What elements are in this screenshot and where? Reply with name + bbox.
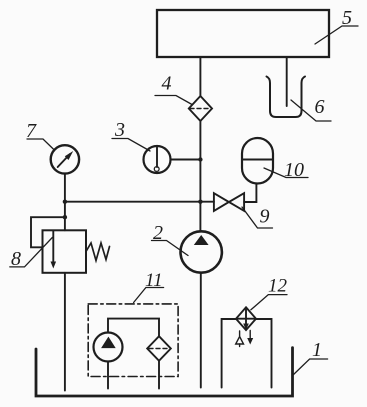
cylinder block 5 xyxy=(157,10,329,57)
relief valve 8 spring xyxy=(86,243,110,261)
filter 11b xyxy=(147,336,171,361)
svg-text:8: 8 xyxy=(11,248,21,270)
container 12 walls xyxy=(222,319,236,388)
horizontal rail wire xyxy=(65,201,214,203)
svg-text:2: 2 xyxy=(153,222,163,244)
svg-text:5: 5 xyxy=(342,7,352,29)
svg-text:11: 11 xyxy=(145,270,163,291)
pump 2 xyxy=(181,231,222,272)
pump 11a xyxy=(94,333,123,362)
label 1 leader xyxy=(293,359,328,376)
node rail/main xyxy=(198,200,202,204)
label 5 leader xyxy=(315,26,358,44)
vessel 6 xyxy=(267,77,306,118)
label 6 leader xyxy=(291,100,331,121)
label 9 leader xyxy=(242,207,273,228)
filter F4 xyxy=(189,96,212,121)
wire gauge3 to main line xyxy=(171,159,201,161)
relief valve 8 body xyxy=(43,230,87,272)
shutoff valve 9 xyxy=(214,193,229,211)
svg-text:10: 10 xyxy=(284,159,304,181)
svg-text:4: 4 xyxy=(162,73,172,95)
gauge 7 stem xyxy=(64,174,66,230)
svg-text:6: 6 xyxy=(315,96,325,118)
svg-text:9: 9 xyxy=(260,206,270,228)
relief valve 8 flow arrow xyxy=(52,231,54,265)
relief valve 8 drain wire xyxy=(64,273,66,391)
pressure gauge 7 xyxy=(51,145,79,173)
label 7 leader xyxy=(27,139,54,150)
label 4 leader xyxy=(155,96,192,105)
svg-text:12: 12 xyxy=(268,276,288,297)
label 10 leader xyxy=(264,168,308,178)
svg-text:1: 1 xyxy=(312,339,322,361)
wire valve 9 to accumulator xyxy=(244,184,256,203)
label 3 leader xyxy=(112,139,150,152)
subunit box 11 xyxy=(88,304,178,377)
node rail/gauge7 xyxy=(63,200,67,204)
label 12 leader xyxy=(251,295,287,310)
breather 12 diamond xyxy=(236,307,256,330)
wire filter11b down xyxy=(158,361,160,389)
wire pump11a down xyxy=(107,362,109,389)
wire from block 5 to filter 4 xyxy=(199,57,201,97)
svg-text:7: 7 xyxy=(26,120,37,142)
breather 12 check valves xyxy=(239,331,241,336)
wire block 5 to vessel 6 xyxy=(286,57,288,106)
label 2 leader xyxy=(152,241,189,256)
main wire below pump 2 xyxy=(200,273,202,388)
svg-text:3: 3 xyxy=(114,119,125,141)
main vertical wire xyxy=(199,121,201,232)
thermometer 3 xyxy=(144,146,171,173)
wire pump11a to filter11b xyxy=(108,319,159,337)
label 11 leader xyxy=(134,288,164,303)
node at main line / gauge 3 xyxy=(198,157,202,161)
relief valve 8 pilot line xyxy=(31,217,65,247)
label 8 leader xyxy=(10,238,53,267)
tank 1 xyxy=(36,348,293,396)
accumulator 10 xyxy=(242,138,273,184)
